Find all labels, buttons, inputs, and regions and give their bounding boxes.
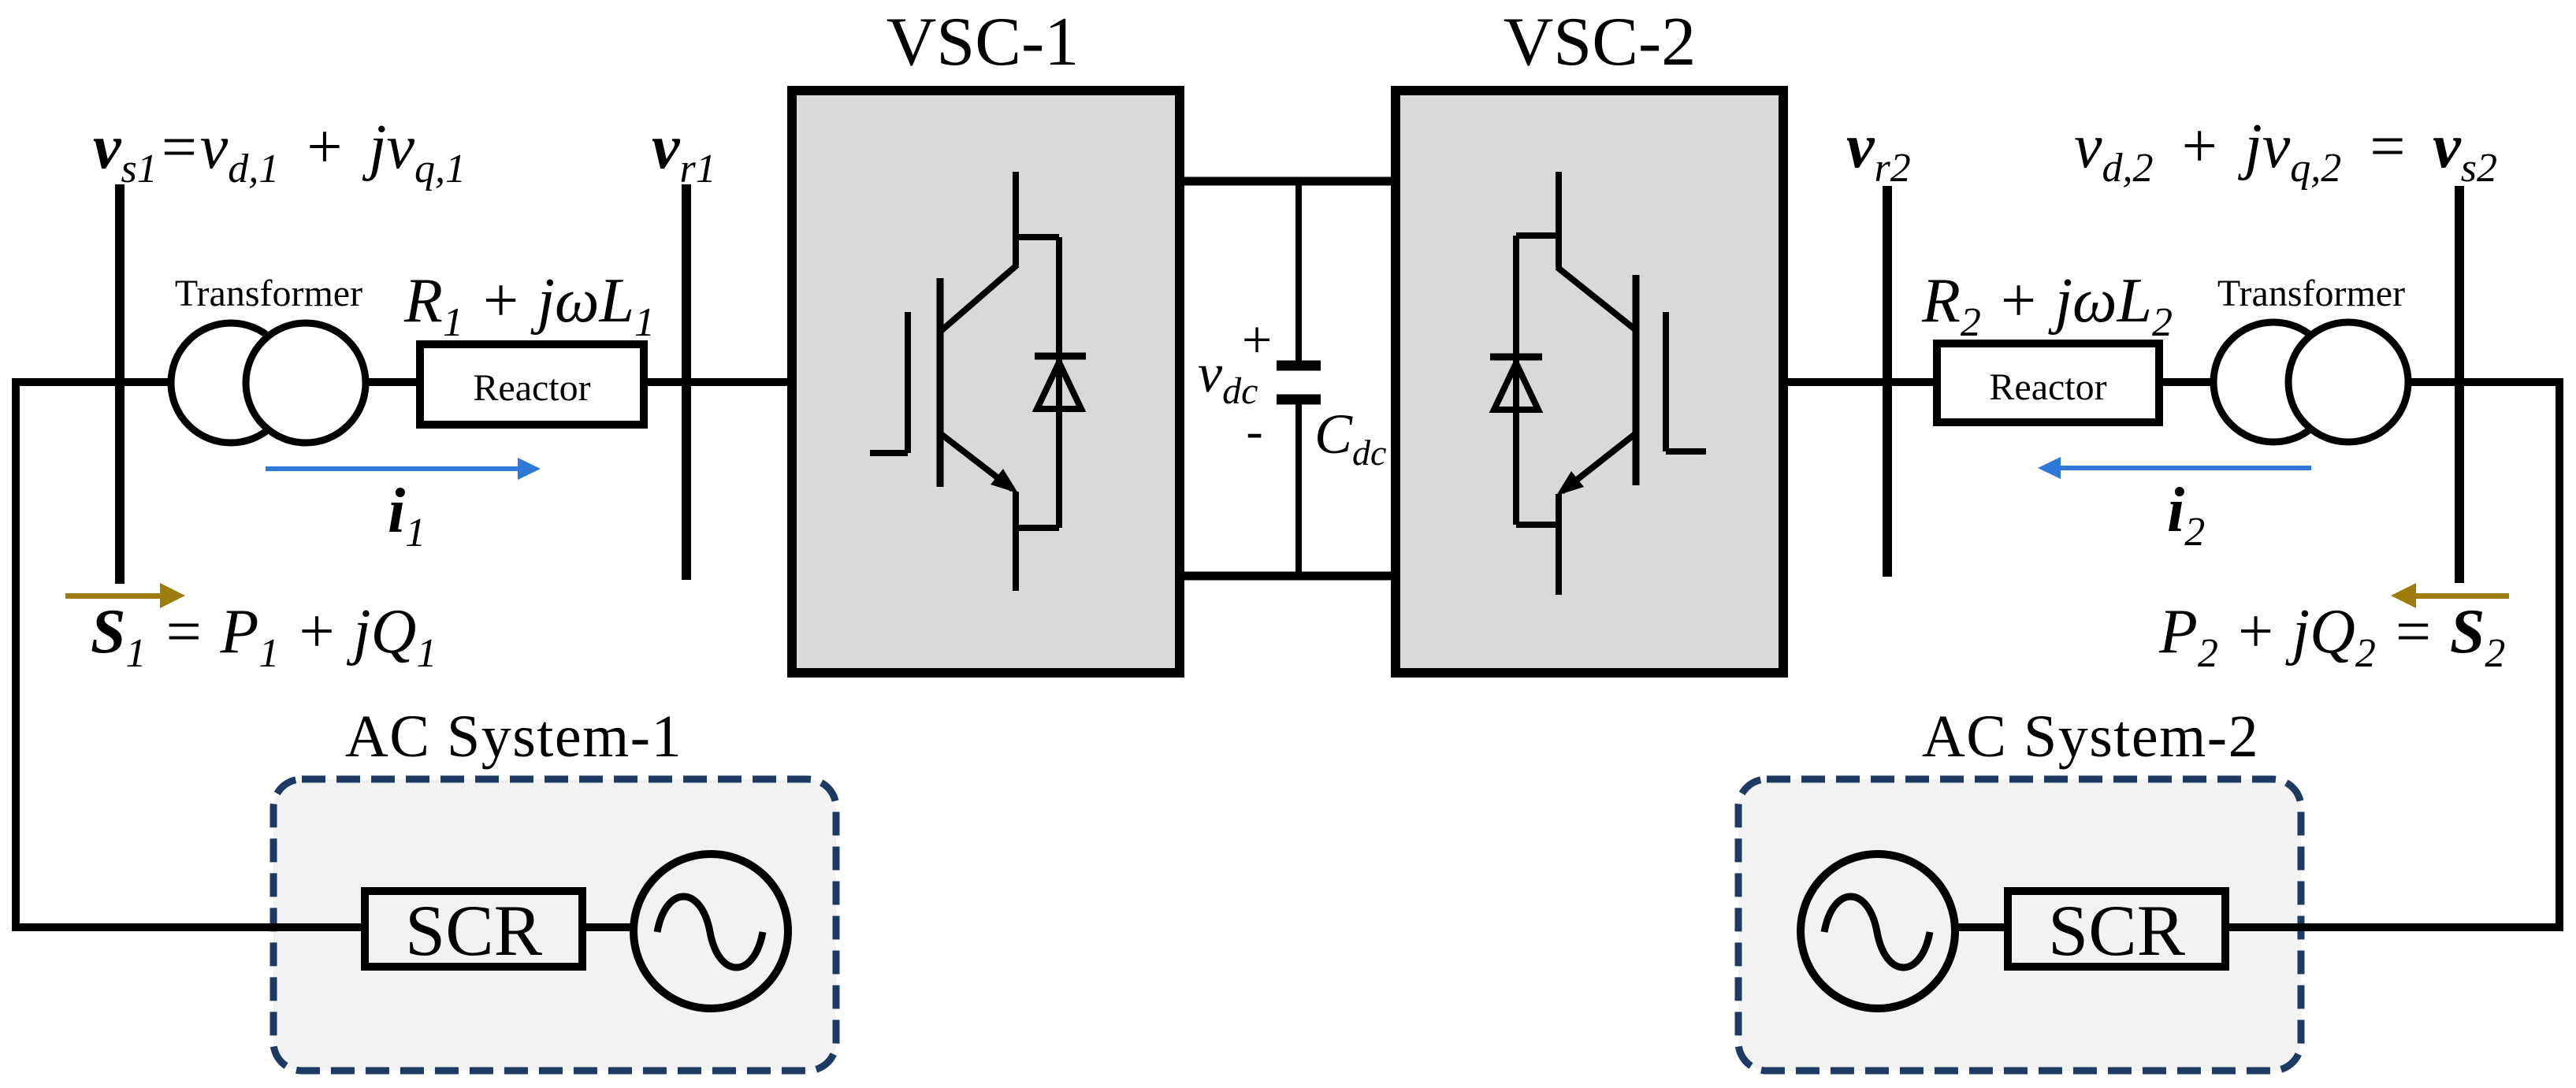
wire: main AC line right (VSC-2 to right corner) bbox=[1782, 378, 2563, 386]
AC System-2 dashed box bbox=[1738, 779, 2301, 1071]
wire: DC link bottom bbox=[1180, 572, 1396, 581]
AC source G1 bbox=[634, 854, 788, 1008]
wire: right vertical drop to AC System-2 bbox=[2556, 378, 2563, 931]
bus bar vr2 bbox=[1883, 186, 1892, 577]
converter box VSC-1 bbox=[792, 91, 1180, 673]
IGBT Q2 with antiparallel diode (inside VSC-2, mirrored) bbox=[1490, 172, 1706, 595]
wire: DC link top bbox=[1180, 177, 1396, 186]
resistor/reactor box R2 bbox=[1937, 343, 2159, 422]
bus bar vs1 bbox=[115, 184, 125, 584]
current arrow i2 (blue) bbox=[2038, 457, 2311, 479]
wire: bottom-left horizontal into SCR box bbox=[12, 923, 367, 931]
wire: left vertical drop to AC System-1 bbox=[12, 378, 20, 931]
wire: main AC line left (bus vs1 to VSC-1) bbox=[12, 378, 792, 386]
AC source G2 bbox=[1801, 854, 1955, 1008]
svg-text:Transformer: Transformer bbox=[2217, 273, 2405, 314]
SCR box 2 bbox=[2008, 891, 2225, 967]
wire: source circle 2 to SCR2 bbox=[1953, 923, 2009, 931]
converter box VSC-2 bbox=[1396, 91, 1783, 673]
svg-text:-: - bbox=[1246, 403, 1262, 459]
svg-text:R2 + jωL2: R2 + jωL2 bbox=[1921, 266, 2173, 345]
svg-text:AC System-1: AC System-1 bbox=[345, 704, 682, 770]
bus bar vr1 bbox=[682, 184, 691, 580]
capacitor Cdc bbox=[1295, 177, 1302, 364]
current arrow i1 (blue) bbox=[266, 458, 541, 480]
svg-text:R1 + jωL1: R1 + jωL1 bbox=[403, 266, 655, 345]
svg-text:SCR: SCR bbox=[405, 890, 543, 971]
IGBT Q1 with antiparallel diode (inside VSC-1) bbox=[870, 172, 1086, 591]
svg-text:SCR: SCR bbox=[2048, 890, 2186, 971]
bus bar vs2 bbox=[2455, 186, 2464, 583]
svg-text:VSC-1: VSC-1 bbox=[887, 4, 1080, 80]
svg-text:Reactor: Reactor bbox=[1989, 366, 2106, 408]
svg-text:AC System-2: AC System-2 bbox=[1922, 704, 2259, 770]
AC System-1 dashed box bbox=[273, 779, 836, 1071]
power arrow S1 (olive) bbox=[65, 583, 185, 608]
svg-text:Reactor: Reactor bbox=[473, 367, 590, 409]
transformer T2 bbox=[2214, 322, 2408, 442]
resistor/reactor box R1 bbox=[420, 344, 644, 425]
power arrow S2 (olive) bbox=[2391, 583, 2509, 608]
svg-text:+: + bbox=[1242, 310, 1272, 369]
SCR box 1 bbox=[365, 891, 582, 967]
wire: SCR1 to source circle bbox=[580, 923, 635, 931]
svg-text:Transformer: Transformer bbox=[175, 273, 362, 314]
wire: bottom-right horizontal into SCR box bbox=[2222, 923, 2563, 931]
svg-text:VSC-2: VSC-2 bbox=[1504, 4, 1697, 80]
transformer T1 bbox=[171, 323, 366, 443]
